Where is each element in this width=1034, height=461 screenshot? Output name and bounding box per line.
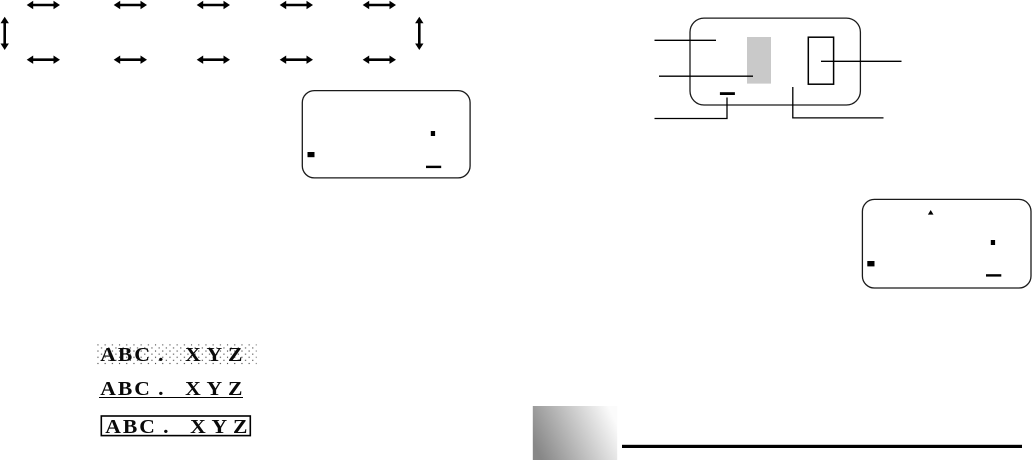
arrow row 1, arrow 4 [280,1,313,9]
horizontal rule bottom [622,445,1022,448]
callout line top-left [655,39,717,41]
arrow row 1, arrow 5 [363,1,396,9]
vertical arrow left [1,17,9,50]
vertical arrow right [415,17,423,50]
callout line bottom-right [793,87,884,118]
text sample 1 ABC. XYZ shaded [100,343,251,345]
arrow row 2, arrow 1 [27,56,60,64]
LCD panel 2 outline [862,199,1031,288]
LCD panel 1 outline [302,91,470,178]
text sample 3 ABC. XYZ framed [105,415,256,417]
LCD1 underline mark [426,166,441,168]
callout line bottom-left [655,98,728,119]
arrow row 1, arrow 2 [114,1,147,9]
underline of sample 2 [99,397,243,398]
arrow row 2, arrow 4 [280,56,313,64]
arrow row 2, arrow 2 [114,56,147,64]
arrow row 2, arrow 3 [197,56,230,64]
LCD2 cursor block left [867,261,874,266]
callout line mid-left [659,75,753,77]
LCD2 triangle marker [928,210,934,215]
display diagram outline [690,18,860,105]
LCD1 cursor block left [308,152,315,157]
display diagram character frame [808,37,833,84]
arrow row 1, arrow 1 [27,1,60,9]
LCD2 underline mark [986,274,1001,276]
callout line right [821,60,902,62]
gradient sample square [533,406,617,460]
arrow row 2, arrow 5 [363,56,396,64]
arrow row 1, arrow 3 [197,1,230,9]
LCD2 small square [991,240,995,245]
display diagram gray cursor [747,37,771,84]
text sample 2 ABC. XYZ underlined [100,377,251,379]
display diagram black dash [720,92,735,95]
LCD1 small square [431,131,435,136]
